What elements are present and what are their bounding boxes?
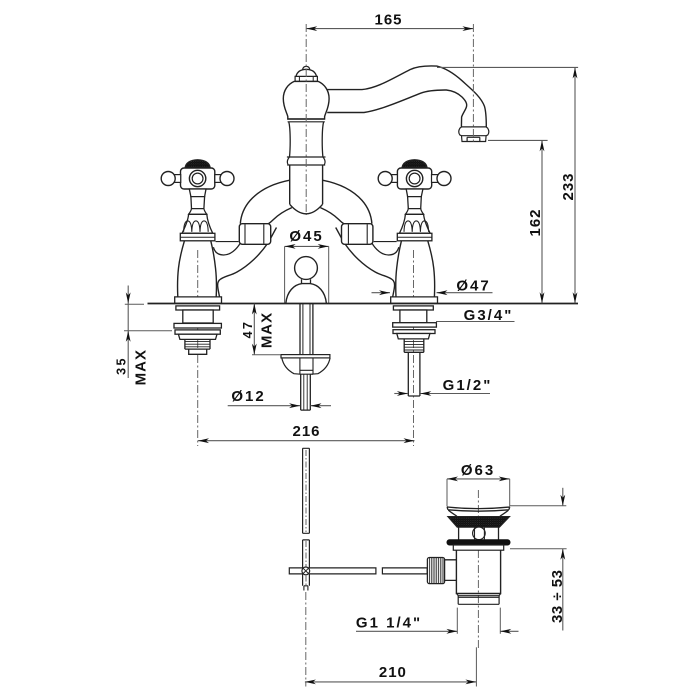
flare ring <box>287 157 326 165</box>
pop-up rod vertical segment 2 <box>303 540 310 586</box>
horizontal rod segment A <box>289 568 376 574</box>
drain center line <box>477 490 479 648</box>
svg-text:MAX: MAX <box>259 312 276 348</box>
dimension 33-53 <box>510 488 567 631</box>
dimension 165 <box>306 12 473 32</box>
dimension Ø45 <box>285 228 329 303</box>
dimension 233 <box>437 67 578 303</box>
dimension 47 MAX <box>241 304 281 355</box>
dimension 35 MAX <box>114 286 172 386</box>
pop-up guide tube below deck <box>281 304 330 411</box>
rod clamp screw <box>302 567 310 575</box>
drain flange trumpet <box>448 510 508 516</box>
wing plate <box>281 355 330 358</box>
spout onion body <box>283 81 329 119</box>
svg-text:33 ÷ 53: 33 ÷ 53 <box>549 570 566 623</box>
svg-text:Ø12: Ø12 <box>231 388 265 405</box>
wings <box>282 358 330 374</box>
spout tube top edge <box>327 66 486 127</box>
svg-text:210: 210 <box>379 664 407 681</box>
drain black washer <box>447 540 510 545</box>
wing center block <box>300 358 313 374</box>
drain tail extension lines <box>457 608 500 634</box>
svg-text:216: 216 <box>292 423 320 440</box>
dimension 210 <box>305 647 477 686</box>
aerator flare <box>459 127 489 136</box>
dimension Ø63 <box>447 462 510 507</box>
rod center line lower <box>305 592 307 687</box>
svg-text:35: 35 <box>114 356 128 375</box>
center line spout column <box>305 24 307 215</box>
pop-up knob stem <box>302 279 311 284</box>
svg-text:165: 165 <box>374 12 402 29</box>
dimension Ø47 <box>372 278 493 296</box>
svg-text:Ø45: Ø45 <box>289 228 323 245</box>
svg-text:Ø47: Ø47 <box>456 278 490 295</box>
aerator cap <box>462 136 487 142</box>
drain knurled knob <box>427 558 444 584</box>
center line right column <box>413 250 415 446</box>
ring under onion <box>288 119 325 122</box>
center line left column <box>197 250 199 446</box>
drain side port <box>443 560 457 581</box>
column neck concave <box>289 122 324 157</box>
svg-text:47: 47 <box>241 320 255 339</box>
dimension 216 <box>198 423 415 443</box>
svg-text:162: 162 <box>527 208 544 236</box>
drain seal hatched band <box>448 517 510 528</box>
drain flange rim <box>447 507 510 511</box>
right column unit (mirrored) <box>320 160 451 304</box>
riser sides <box>290 165 323 204</box>
pop-up knob dome <box>286 284 327 304</box>
svg-text:G1/2": G1/2" <box>443 377 493 394</box>
pop-up rod vertical segment 1 <box>303 448 310 590</box>
spout finial <box>295 66 317 81</box>
dimension G3/4 <box>436 307 515 324</box>
drain slot and ball <box>459 527 499 540</box>
center line spout outlet <box>472 24 474 142</box>
right shank below deck <box>393 306 437 396</box>
left shank below deck <box>174 306 221 354</box>
svg-text:233: 233 <box>560 172 577 200</box>
deck line <box>148 303 579 305</box>
drain step ring <box>453 545 503 550</box>
dimension 162 <box>488 140 548 303</box>
drain tail ring <box>457 594 501 605</box>
svg-text:Ø63: Ø63 <box>461 462 495 479</box>
pop-up knob ball <box>295 257 318 280</box>
pop-up rod upper <box>301 374 311 410</box>
horizontal rod segment B <box>382 568 427 574</box>
dimension G1/2 <box>394 377 492 396</box>
spout tube bottom edge <box>327 90 466 127</box>
dimension G1 1/4 <box>356 615 519 634</box>
svg-text:G1 1/4": G1 1/4" <box>356 615 422 632</box>
riser bottom round <box>290 204 323 214</box>
left column unit <box>161 160 292 304</box>
drain body <box>456 550 500 593</box>
svg-text:MAX: MAX <box>133 349 150 385</box>
dimension Ø12 <box>228 388 331 408</box>
